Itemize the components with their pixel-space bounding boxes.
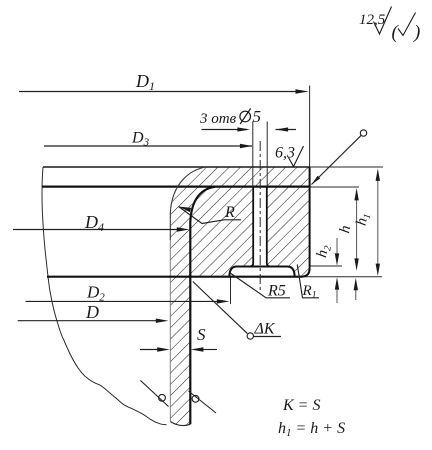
svg-text:3 отв: 3 отв [199,111,237,127]
dimension 3 holes dia5 [202,129,248,131]
recess left corner R5 [229,267,236,277]
flange underside extension (h) [310,186,359,188]
svg-text:D3: D3 [131,130,150,149]
h2 extension line [310,265,342,267]
svg-text:R: R [224,204,235,221]
svg-text:D4: D4 [84,212,104,234]
edge leader with circle (top right) [312,135,362,184]
svg-text:D2: D2 [86,283,105,304]
hole extension line left [252,122,254,187]
hole left wall [249,187,253,267]
dimension D2 [26,300,225,302]
dimension D3 [44,145,252,147]
radius R1 leader [297,265,319,298]
part top face [43,166,310,168]
svg-text:S: S [197,325,206,344]
clearance leader dK [193,282,248,334]
svg-text:): ) [413,22,420,43]
bottom face (thick) [47,276,302,278]
svg-text:D: D [85,302,99,322]
dimension S [140,349,158,351]
svg-text:(: ( [392,22,400,43]
dimension D1 [19,91,303,93]
die radius R curve + bore wall (thick) [190,187,215,424]
svg-text:R5: R5 [267,283,286,300]
svg-text:h2: h2 [314,244,334,259]
dimension D4 [13,229,184,231]
hole centerline [259,141,261,292]
cup outer surface curve [170,167,206,240]
bottom-right corner round R1 [301,269,310,277]
dimension h2 [336,238,338,254]
part section hatching [170,167,309,426]
wall bottom cut [170,422,190,426]
recess top line [236,266,288,268]
svg-text:h: h [337,224,354,234]
part right edge [309,167,311,269]
svg-text:6,3: 6,3 [275,145,295,162]
svg-text:ΔK: ΔK [254,321,276,338]
svg-text:h1 = h + S: h1 = h + S [278,420,345,439]
radius R leader [179,207,242,224]
break line (torn edge) [42,167,167,425]
svg-text:R1: R1 [302,283,317,301]
flange underside (thick) [42,186,310,188]
D2 extension line [230,278,232,305]
svg-text:K = S: K = S [282,397,320,414]
top face extension line (h1) [310,166,383,168]
D1 extension line [309,86,311,168]
svg-text:D1: D1 [135,71,155,93]
dimension h [356,194,358,260]
radius R5 leader [230,273,291,298]
hole right wall [267,187,271,267]
svg-text:12,5: 12,5 [359,12,386,28]
recess right corner R1 [288,267,295,277]
dimension D [18,320,162,322]
dimension h1 [377,174,379,264]
hole extension line right [266,122,268,187]
trim marks on wall [140,380,168,406]
svg-text:5: 5 [253,107,262,126]
bottom face extension (h, h1) [302,276,383,278]
